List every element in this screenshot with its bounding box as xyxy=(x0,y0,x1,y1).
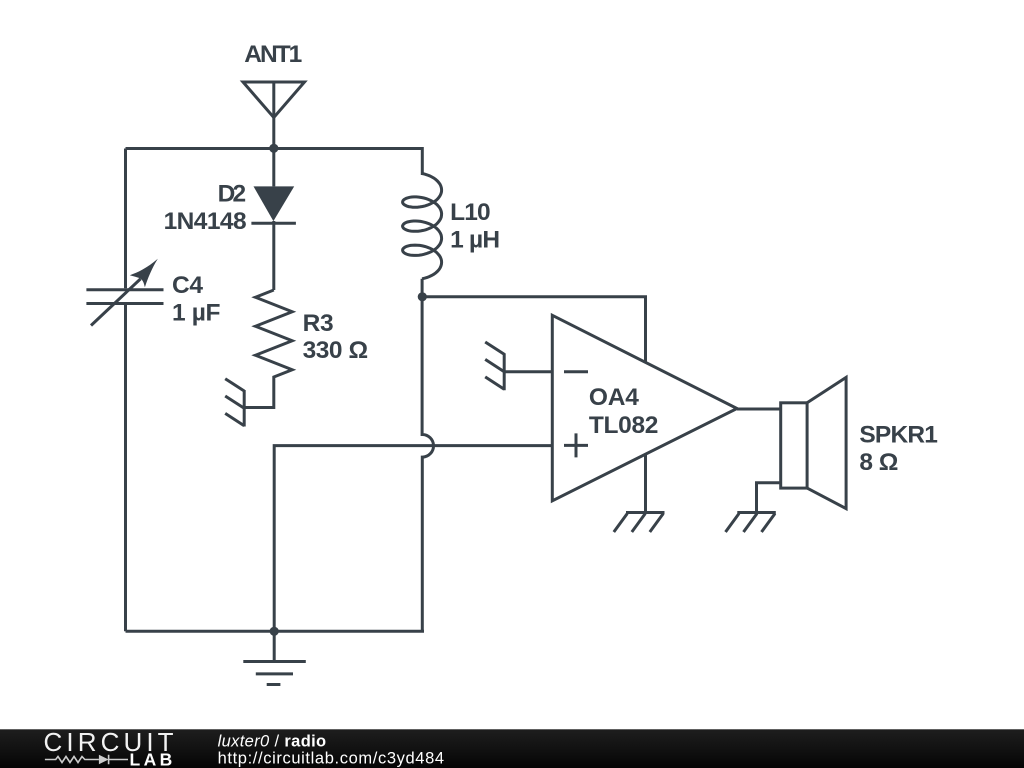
svg-text:R3: R3 xyxy=(303,310,334,337)
svg-text:1 µF: 1 µF xyxy=(172,300,221,327)
svg-text:http://circuitlab.com/c3yd484: http://circuitlab.com/c3yd484 xyxy=(218,749,445,767)
svg-text:8 Ω: 8 Ω xyxy=(859,449,898,476)
svg-text:D2: D2 xyxy=(218,180,247,207)
svg-text:L10: L10 xyxy=(450,199,491,226)
svg-text:1N4148: 1N4148 xyxy=(164,208,247,235)
svg-text:ANT1: ANT1 xyxy=(244,41,302,68)
svg-text:luxter0 / radio: luxter0 / radio xyxy=(218,732,327,750)
svg-text:TL082: TL082 xyxy=(589,412,659,439)
svg-text:1 µH: 1 µH xyxy=(450,227,500,254)
svg-text:LAB: LAB xyxy=(130,749,176,768)
svg-text:C4: C4 xyxy=(172,272,203,299)
svg-text:330 Ω: 330 Ω xyxy=(303,337,369,364)
svg-text:SPKR1: SPKR1 xyxy=(859,422,938,449)
svg-text:OA4: OA4 xyxy=(589,384,639,411)
